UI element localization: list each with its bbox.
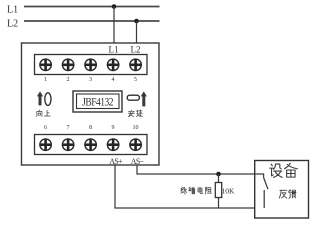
resistor R 10K (terminal resistor) [215, 174, 221, 208]
terminal 8 [85, 139, 97, 151]
svg-text:4: 4 [112, 77, 115, 83]
label 安装 (install) [128, 110, 142, 117]
svg-text:9: 9 [112, 125, 115, 131]
svg-text:AS+: AS+ [109, 157, 123, 166]
terminal strip upper [35, 55, 148, 75]
display box outer [73, 91, 122, 112]
svg-text:2: 2 [67, 77, 70, 83]
terminal 6 [40, 139, 52, 151]
label 反馈 (feedback) [279, 190, 296, 198]
svg-text:JBF4132: JBF4132 [82, 97, 113, 109]
svg-text:L1: L1 [7, 4, 18, 15]
module JBF4132 outline [22, 43, 160, 165]
power rail L2 [24, 20, 160, 22]
wire from rail L2 down to module terminal 5 [136, 21, 138, 43]
terminal 10 [130, 139, 142, 151]
svg-text:3: 3 [89, 77, 92, 83]
svg-text:10: 10 [133, 125, 139, 131]
terminal strip lower [35, 135, 148, 155]
svg-text:6: 6 [44, 125, 47, 131]
terminal 9 [107, 139, 119, 151]
label 终端电阻 (terminal resistor) [181, 187, 212, 194]
install arrow icon (solid) [141, 91, 147, 106]
power rail L1 [24, 6, 160, 8]
junction dot at resistor top [216, 172, 221, 177]
terminal 2 [62, 59, 74, 71]
wire from rail L1 down to module terminal 4 [113, 7, 115, 44]
junction dot on rail L1 [112, 4, 117, 9]
svg-text:8: 8 [89, 125, 92, 131]
switch (feedback contact) [255, 174, 268, 208]
svg-text:L2: L2 [7, 18, 18, 29]
wire AS- down and right to device (upper rail) [137, 165, 264, 174]
terminal 1 [40, 59, 52, 71]
label 向上 (upward) [37, 110, 50, 117]
wire AS+ down and right to device (lower rail) [115, 165, 264, 208]
junction dot on rail L2 [134, 19, 139, 24]
svg-text:5: 5 [134, 77, 137, 83]
display box inner [77, 94, 120, 109]
svg-text:AS−: AS− [131, 157, 145, 166]
terminal 3 [85, 59, 97, 71]
slot icon (capsule outline) [127, 95, 139, 100]
zero icon (oval outline) [45, 93, 51, 106]
svg-text:L2: L2 [131, 45, 141, 55]
label 设备 (device) [270, 163, 298, 177]
device box [255, 161, 309, 219]
terminal 7 [62, 139, 74, 151]
svg-text:L1: L1 [109, 45, 119, 55]
svg-text:1: 1 [44, 77, 47, 83]
up-arrow icon (solid) [37, 91, 43, 105]
svg-text:7: 7 [67, 125, 70, 131]
terminal 5 [130, 59, 142, 71]
svg-text:10K: 10K [222, 187, 236, 196]
terminal 4 [107, 59, 119, 71]
